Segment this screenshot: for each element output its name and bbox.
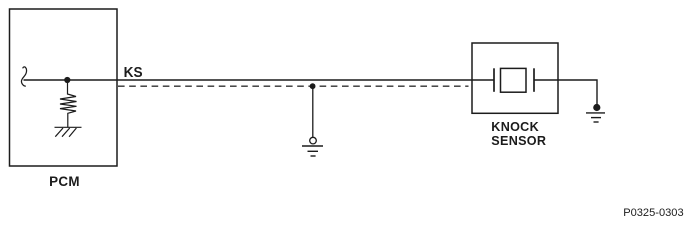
piezo crystal square — [501, 68, 527, 92]
wire shield to ground — [312, 86, 314, 137]
node junction dot in PCM — [64, 77, 70, 83]
piezo element right plate — [533, 68, 535, 92]
svg-text:SENSOR: SENSOR — [491, 134, 546, 148]
earth ground (shield) — [302, 146, 323, 156]
svg-text:KS: KS — [124, 65, 143, 82]
chassis ground (PCM internal) — [55, 127, 82, 136]
wire sensor to ground — [534, 80, 597, 105]
shield dashed wire — [118, 85, 469, 87]
wire break squiggle — [21, 67, 26, 86]
node dot on shield — [310, 83, 316, 89]
wire KS: PCM to knock sensor — [24, 79, 495, 81]
resistor (pull-up in PCM) — [60, 80, 77, 127]
earth ground (sensor) — [586, 113, 605, 122]
ground terminal dot — [593, 104, 600, 111]
knock sensor box — [472, 43, 558, 113]
piezo element left plate — [493, 68, 495, 92]
svg-text:P0325-0303: P0325-0303 — [623, 207, 683, 219]
ground terminal circle — [310, 137, 317, 144]
svg-text:KNOCK: KNOCK — [491, 120, 539, 134]
PCM box — [10, 9, 118, 166]
svg-text:PCM: PCM — [49, 174, 80, 189]
